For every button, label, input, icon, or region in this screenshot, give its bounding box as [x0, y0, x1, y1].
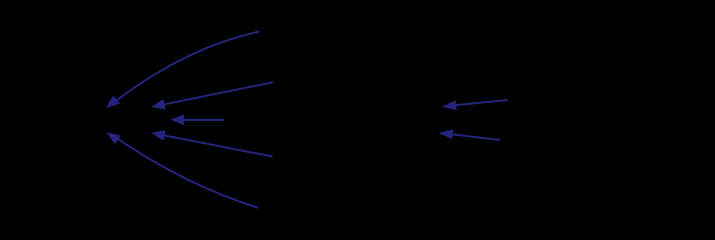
arrowhead 1	[106, 95, 120, 108]
arrowhead 6	[442, 100, 457, 110]
wire arrow4 shaft	[157, 134, 273, 157]
arrowhead 5	[107, 132, 121, 144]
wire arrow5 bottom curved shaft	[113, 135, 259, 208]
wire arrow2 shaft	[157, 82, 273, 106]
arrowhead 2	[151, 99, 166, 110]
arrowhead 7	[438, 130, 453, 140]
wire arrow7 shaft	[444, 133, 500, 140]
arrowhead 3	[171, 114, 184, 125]
wire arrow6 shaft	[448, 100, 508, 106]
wire arrow1 top curved shaft	[110, 32, 260, 106]
wire arrow3 shaft	[176, 119, 224, 121]
arrowhead 4	[151, 130, 166, 141]
